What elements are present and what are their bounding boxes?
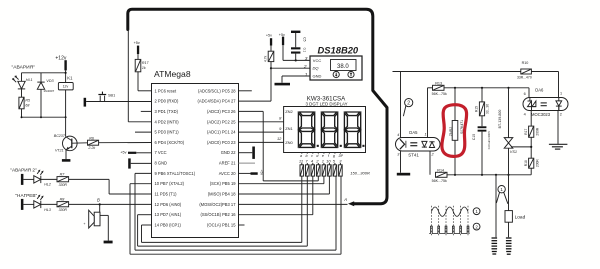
segment resistor r4 [317,153,321,177]
DA5 pin 1 wire up to R13 [427,88,429,138]
svg-text:6 PD4 (XCK/T0): 6 PD4 (XCK/T0) [155,140,185,145]
svg-text:1k: 1k [142,66,146,70]
svg-text:3 PD1 (TXD): 3 PD1 (TXD) [155,109,179,114]
svg-text:GND 22: GND 22 [221,150,237,155]
svg-text:R5: R5 [25,99,30,103]
segment resistor r6 [328,153,332,177]
wire pin 25 to display ZN2 [239,121,284,123]
segment resistor r7 [333,153,337,177]
svg-text:"НАГРЕВ": "НАГРЕВ" [15,193,37,198]
module DS18B20 box [310,56,362,80]
svg-text:(SS/OC1B) PB2 16: (SS/OC1B) PB2 16 [200,212,236,217]
diode VD3 1N4007 [37,73,44,117]
resistor R13 [428,85,530,90]
svg-text:14 PB0 (ICP1): 14 PB0 (ICP1) [155,223,182,228]
svg-text:(ADC4/SDA) PC4 27: (ADC4/SDA) PC4 27 [198,99,237,104]
ground symbol under DA6 [549,144,568,149]
svg-text:0.01uFx400V: 0.01uFx400V [487,130,491,149]
wire pin 11 from HL2 chain [109,193,151,195]
svg-text:VS1: VS1 [510,150,517,154]
wire pin 14 to bottom bus [142,176,302,242]
junction bottom rail at ZNR2 [454,174,456,176]
junction gate node [530,146,532,148]
left mains wire down to plug [495,175,497,237]
svg-text:(ADC1) PC1 24: (ADC1) PC1 24 [207,130,236,135]
svg-text:1: 1 [322,159,324,164]
wire +12v down to K1 node [65,70,67,82]
svg-text:BC237: BC237 [54,134,66,138]
junction top rail at ZNR2 [454,87,456,89]
svg-text:(OC1A) PB1 15: (OC1A) PB1 15 [207,223,236,228]
DA6 pin 2 wire to ground [557,111,559,144]
svg-text:1: 1 [560,92,562,96]
svg-text:g: g [333,154,335,158]
svg-text:(SCK) PB5 19: (SCK) PB5 19 [210,181,236,186]
wire top rail HL1/VD3/K1 [22,72,66,74]
node junction at K1 column [65,72,67,74]
svg-text:4 PD2 (INT0): 4 PD2 (INT0) [155,119,180,124]
DS18B20 button up [348,71,354,77]
svg-text:(ADC5/SCL) PC5 28: (ADC5/SCL) PC5 28 [198,88,236,93]
svg-text:Load: Load [515,215,526,221]
DA6 triac glyph [528,98,536,111]
circled 2 at pulse waveform [473,223,480,230]
resistor R18 gate [529,158,534,175]
svg-text:VT21: VT21 [55,149,64,153]
wire pin 23 to display ZN0 [239,141,284,143]
svg-text:150...300R: 150...300R [350,170,370,175]
svg-text:"АВАРИЯ 2": "АВАРИЯ 2" [10,168,37,173]
svg-text:8 GND: 8 GND [155,161,168,166]
svg-text:MOC3023: MOC3023 [531,112,551,117]
svg-text:+5v: +5v [120,151,126,155]
svg-text:+5v: +5v [259,170,263,176]
varistor ZNR2 [452,88,458,175]
svg-text:VCC: VCC [313,58,322,63]
junction top rail at triac column [507,87,509,89]
relay K1 coil [58,83,73,118]
svg-text:+5v: +5v [266,33,272,37]
bottom node wire of alarm block [22,116,66,118]
wire DQ to DS18B20 pin 2 [271,67,310,69]
svg-text:2.2k: 2.2k [87,146,95,150]
svg-text:GND: GND [313,74,322,79]
svg-text:(MOSI/OC2)PB3 17: (MOSI/OC2)PB3 17 [199,202,236,207]
svg-text:R17: R17 [142,61,150,65]
svg-text:+5v: +5v [279,33,285,37]
svg-text:B: B [97,198,100,203]
svg-text:HL2: HL2 [44,183,51,187]
resistor R15 snubber [479,88,484,127]
supply bar terminal for HL2 row [21,174,24,185]
segment resistor r8 [339,153,343,177]
svg-text:56K...75k: 56K...75k [432,92,447,96]
svg-text:12v: 12v [63,85,69,89]
svg-text:33...36: 33...36 [485,104,489,114]
svg-text:VD3: VD3 [46,79,54,83]
segment resistor r1 [300,153,304,177]
svg-text:56K...75k: 56K...75k [432,179,447,183]
wire pin 24 to display ZN1 [239,131,284,133]
svg-text:A: A [343,197,347,202]
waveform zero-cross dashed lines [431,206,468,237]
svg-text:BT-139-800: BT-139-800 [498,110,502,129]
DA6 pin 6 wire from top rail [528,88,530,98]
junction top rail at C15 column [481,87,483,89]
triac VS1 [504,88,531,175]
wire pin 17 to node A [239,203,348,205]
decimal point 1 [317,145,319,147]
resistor R14 [436,172,532,177]
segment letters a b c d e f g DP [300,154,344,158]
segment resistor r2 [306,153,310,177]
DA5 coupling dashes [410,143,417,146]
DA5 pin 3 wire to ground bar [397,151,410,176]
DA5 back-to-back diode pair [422,141,435,147]
svg-text:R15: R15 [474,106,478,112]
svg-text:HL3: HL3 [44,208,51,212]
wire stub pin 3 TXD [141,110,152,112]
svg-text:AVCC 20: AVCC 20 [219,171,236,176]
DA6 coupling dashes [541,103,547,106]
arrowhead of marker line pointing at node A [348,201,354,206]
svg-text:330R: 330R [59,208,68,212]
svg-text:10: 10 [326,159,331,164]
svg-text:9 PB6 XTAL1/TOSC1): 9 PB6 XTAL1/TOSC1) [155,171,196,176]
waveform sine trace [431,207,468,216]
junction bottom rail at triac column [507,174,509,176]
svg-text:11: 11 [299,159,303,164]
+5v tick for DS18B20 VCC [282,37,284,46]
wire pin 13 to bottom bus [138,176,308,246]
svg-text:1N4007: 1N4007 [43,89,54,93]
resistor R17 reset pull-up with +5v [135,46,151,91]
DA6 LED glyph [556,98,562,111]
resistor R6 [88,140,152,145]
svg-text:DA5: DA5 [409,130,418,135]
svg-text:DA6: DA6 [535,88,544,93]
svg-text:(ADC0) PC0 23: (ADC0) PC0 23 [207,140,236,145]
svg-text:C5: C5 [303,37,307,41]
resistor R12 4.7k pull-up [268,46,274,69]
svg-text:2: 2 [303,64,307,70]
wire pin 26 routed to segment resistor r4 [239,111,319,180]
svg-text:b: b [306,154,308,158]
waveform pulse train trace [429,226,469,233]
svg-text:DQ: DQ [313,66,319,71]
segment pin numbers 11 7 4 2 1 10 5 3 [299,159,342,164]
svg-text:C15: C15 [472,134,476,140]
junction bottom rail at left mains wire [495,174,497,176]
junction bottom rail at C15 column [481,174,483,176]
svg-text:R13: R13 [435,81,442,85]
svg-text:4: 4 [397,133,399,137]
wire stub pin 5 INT1 [135,131,152,133]
svg-text:12: 12 [277,136,282,141]
wire pin 10 XTAL2 to bottom bus [130,176,341,254]
svg-text:R14: R14 [437,169,444,173]
DA5 phototransistor glyph [400,139,406,149]
decimal point 2 [340,145,342,147]
svg-text:33R...470: 33R...470 [517,76,532,80]
thick marker annotation line from top-left to node A [128,9,387,204]
pushbutton SB1 with ground bar [84,92,152,107]
svg-text:1: 1 [305,72,308,78]
speaker/buzzer [89,204,113,243]
DA5 pin 4 wire up to top rail [400,72,402,138]
capacitor C5 with top ground bar [291,31,300,61]
svg-text:R18: R18 [524,160,528,166]
svg-text:+12v: +12v [55,56,66,62]
DA6 pin 1 wire from R10 [531,72,558,98]
wire stub AREF pin 21 [239,162,256,164]
resistor R7 [57,177,109,194]
svg-text:4.7k: 4.7k [264,55,268,62]
segment resistor r3 [311,153,315,177]
+5v bar at AVCC pin 20 [239,172,258,175]
junction at capacitor C5 column [295,59,297,61]
LED HL3 [23,195,57,209]
svg-text:68: 68 [25,103,29,107]
svg-text:3: 3 [305,56,308,62]
svg-text:+: + [83,222,85,226]
node B junction [99,203,101,205]
wire pin 27 to DS18B20 DQ [239,68,272,101]
circled 2 annotation with pointer [403,99,412,117]
svg-text:(ADC2) PC2 25: (ADC2) PC2 25 [207,119,236,124]
svg-text:11 PD5 (T1): 11 PD5 (T1) [155,192,178,197]
svg-text:2: 2 [560,113,562,117]
svg-text:1 PC6 reset: 1 PC6 reset [155,88,177,93]
mains plug prong right [506,238,512,254]
Load box [505,211,512,223]
wire pin 18 to segment resistor r6 [239,176,330,194]
svg-text:e: e [322,154,324,158]
svg-text:+5v: +5v [134,41,140,45]
svg-text:6: 6 [524,92,526,96]
svg-text:1: 1 [424,133,426,137]
svg-text:(ADC3) PC3 26: (ADC3) PC3 26 [207,109,236,114]
svg-text:330R: 330R [59,183,68,187]
svg-text:5 PD3 (INT1): 5 PD3 (INT1) [155,130,180,135]
svg-text:ZN2: ZN2 [285,109,293,114]
svg-text:(MISO) PB4 18: (MISO) PB4 18 [208,192,236,197]
mains plug prong left [492,238,498,254]
svg-text:13 PD7 (AIN1): 13 PD7 (AIN1) [155,212,182,217]
svg-text:"АВАРИЯ": "АВАРИЯ" [12,65,36,71]
optocoupler DA5 body [396,138,441,152]
svg-text:2: 2 [407,101,410,107]
ground bar at GND pin 22 [239,147,255,159]
resistor R5 [19,97,24,117]
decimal point 3 [362,145,364,147]
circled 1 annotation on mains pair [496,186,508,204]
svg-text:DS18B20: DS18B20 [318,45,359,56]
wire stub pin 15 [239,224,245,226]
wire stub pin 28 [239,90,252,92]
wire pin 19 to segment resistor r5 [239,176,324,184]
svg-text:38.0: 38.0 [337,64,349,70]
digit 1 of 7-seg display [298,112,314,147]
svg-text:ZNR2: ZNR2 [449,127,453,136]
display DS1 KW3-361CSA box [284,107,366,153]
svg-text:ATMega8: ATMega8 [154,69,191,79]
svg-text:12 PD6 (AIN0): 12 PD6 (AIN0) [155,202,182,207]
svg-text:c: c [311,154,313,158]
capacitor C15 [478,126,487,175]
transistor VT21 BC237 [62,117,88,162]
red marker oval annotation around ZNR2 [442,105,467,157]
svg-text:ZN1: ZN1 [285,126,293,131]
wire +5v down to VCC pin 3 [283,45,310,60]
optocoupler DA6 MOC3023 body [523,98,568,111]
DS18B20 GND pin 1 wire to ground bar [275,76,311,85]
svg-text:K1: K1 [67,76,73,81]
resistor R17 gate [529,111,534,159]
svg-text:4: 4 [524,112,526,116]
wire pin 9 XTAL1 to bottom bus [135,173,336,250]
svg-text:R17: R17 [524,129,528,135]
svg-text:SB1: SB1 [108,94,115,98]
resistor R8 [57,202,152,207]
svg-text:HL1: HL1 [26,78,33,82]
digit 3 of 7-seg display [344,112,360,147]
right mains wire down through Load [508,175,510,211]
DA5 pin 2 wire down to R14 [429,151,431,175]
svg-text:7 VCC: 7 VCC [155,150,167,155]
+5v bar at VCC pin 7 [128,152,152,154]
wire pin 16 to segment resistor r3 [239,176,313,215]
svg-text:AREF 21: AREF 21 [219,161,236,166]
+5v tick for R12 pull-up [270,38,272,45]
supply bar terminal for HL3 row [21,199,24,210]
top wire to R10 and DA6 pin1 [393,71,521,73]
svg-text:ST41: ST41 [408,153,419,158]
LED HL2 [23,170,57,184]
resistor R10 [521,69,532,74]
svg-text:R10: R10 [522,61,529,65]
svg-text:2 PD0 (RXD): 2 PD0 (RXD) [155,99,180,104]
svg-text:200R: 200R [536,127,540,136]
svg-text:a: a [300,154,302,158]
IC U1 ATMega8 box [152,84,239,238]
svg-text:10 PB7 (XTAL2): 10 PB7 (XTAL2) [155,181,185,186]
segment resistor r5 [322,153,326,177]
svg-text:3 DGT LED DISPLAY: 3 DGT LED DISPLAY [306,101,348,106]
+12v supply [64,60,66,70]
LED HL1 [12,73,25,97]
circled 1 at sine waveform [473,208,480,215]
digit 2 of 7-seg display [321,112,337,147]
ground bar at GND pin 8 [128,158,151,168]
DS18B20 inner display window 38.0 [331,60,357,71]
junction DQ node [270,67,272,69]
DS18B20 button down [333,71,339,77]
svg-text:0.1: 0.1 [303,48,307,53]
svg-text:200R: 200R [536,159,540,168]
svg-text:ZN0: ZN0 [285,140,293,145]
wire from marker tail down to INT0 [128,30,151,122]
svg-text:R6: R6 [89,136,94,140]
